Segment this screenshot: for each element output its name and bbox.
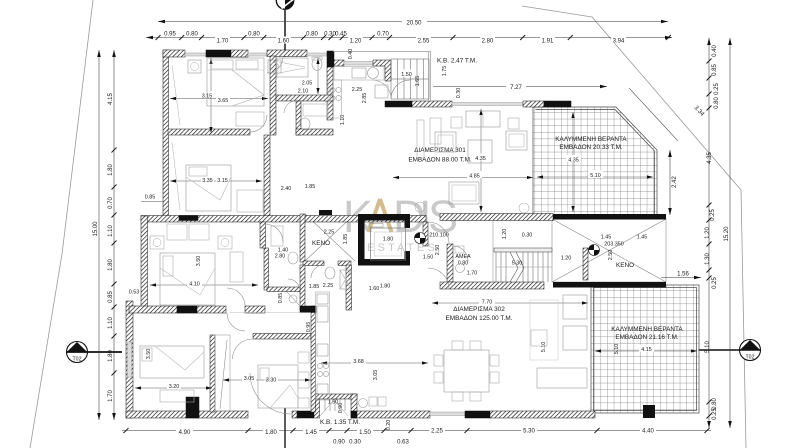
svg-text:0.53: 0.53 [129,290,140,296]
labels bottom chain [176,426,656,446]
dim 1.56 [661,272,701,281]
svg-text:0.40: 0.40 [348,49,354,60]
wall bath2 right [346,265,352,310]
door wc1 [284,101,296,113]
kb135 black foot [351,411,357,418]
arrows top chains [146,20,672,40]
kb boundary thin [333,52,431,102]
svg-text:Κ.Β. 1.35 Τ.Μ.: Κ.Β. 1.35 Τ.Μ. [320,419,360,426]
svg-text:ΔΙΑΜΕΡΙΣΜΑ 302: ΔΙΑΜΕΡΙΣΜΑ 302 [453,306,505,313]
labels right inner chain [705,45,730,420]
elevator shaft walls [358,214,410,221]
dim line 3.65 [170,98,268,100]
svg-text:1.50: 1.50 [401,72,412,78]
door bed302-1 top [265,224,283,242]
svg-text:5.10: 5.10 [614,344,620,355]
door bedroom1 [250,115,267,132]
wall wc1 bottom [296,129,333,135]
elevator car [371,228,406,260]
svg-text:0.85: 0.85 [278,293,284,304]
svg-text:4.35: 4.35 [475,156,486,162]
door bed302-2 [227,313,245,331]
kitchen counter left [328,80,342,118]
svg-text:3.65: 3.65 [218,98,229,104]
svg-text:ΕΜΒΑΔΟΝ 21.16 Τ.Μ.: ΕΜΒΑΔΟΝ 21.16 Τ.Μ. [615,334,679,341]
dining 302 [444,350,489,392]
fridge [375,85,388,98]
kb135 wall left [314,394,320,418]
dim line 2.05/2.10 vertical [317,58,319,94]
svg-text:4.15: 4.15 [641,347,652,353]
svg-text:2.55: 2.55 [418,39,430,45]
svg-text:0.30: 0.30 [522,233,533,239]
sofas 302 [563,295,587,319]
svg-text:1.80: 1.80 [383,237,394,243]
door amea [453,246,468,261]
svg-text:0.80: 0.80 [306,32,318,38]
svg-text:0.95: 0.95 [164,32,176,38]
stair lower landing [494,248,552,252]
svg-text:ΑΜΕΑ: ΑΜΕΑ [455,254,471,260]
svg-text:1.60: 1.60 [278,39,290,45]
svg-text:1.80: 1.80 [108,164,114,176]
svg-text:3.20: 3.20 [169,384,180,390]
svg-text:3.50: 3.50 [196,256,202,267]
wall separator main [141,216,426,223]
wall living top hatch [412,101,452,107]
site boundary right [522,6,746,448]
svg-text:3.15: 3.15 [217,178,228,184]
loveseat 301 bottom [449,182,479,204]
svg-text:1.10: 1.10 [108,225,114,237]
veranda 302 column [643,405,655,418]
svg-text:ΕΜΒΑΔΟΝ 20.33 Τ.Μ.: ΕΜΒΑΔΟΝ 20.33 Τ.Μ. [559,144,623,151]
door entry 301 [428,222,449,243]
wall bath2 top right [338,261,351,266]
svg-text:4.35: 4.35 [568,157,579,163]
svg-text:0.30: 0.30 [349,440,361,446]
wall bottom 302 [126,411,248,418]
wall kitchen left [327,67,333,120]
svg-text:3.68: 3.68 [353,359,364,365]
site boundary left [30,0,93,448]
svg-text:2.80: 2.80 [482,39,494,45]
dim line 3.20 [135,387,212,389]
svg-text:0.80: 0.80 [714,97,720,109]
svg-text:7.70: 7.70 [482,299,493,305]
wall living top black [385,101,412,107]
wall keno1 left [300,214,305,262]
dim 2.42 veranda right [668,150,678,215]
wall bed3 top [129,306,226,313]
svg-text:0.80: 0.80 [248,32,260,38]
wall bed2 right [260,222,266,248]
svg-text:3.94: 3.94 [613,39,625,45]
keno2 X cross [552,219,666,282]
wall bath1 left [270,56,276,135]
wall bed4 top [253,334,311,340]
door hall2 [288,279,300,291]
ticks right chain [707,59,712,64]
sofa set 301 [466,111,500,127]
window top 3 [307,53,327,56]
stair dims [399,70,414,77]
wall bottom hatch long [490,411,595,418]
dim line 4.10 [150,284,258,286]
svg-text:2.50: 2.50 [435,245,441,256]
svg-text:2.80: 2.80 [275,254,286,260]
svg-text:1.91: 1.91 [542,39,554,45]
kitchen counter top [334,67,384,81]
svg-text:2.40: 2.40 [281,186,292,192]
svg-text:1.20: 1.20 [502,229,508,240]
wall bedroom1 bottom [168,129,250,135]
column bottom black [186,397,199,418]
coffee table 301 [468,140,492,163]
wall core top [440,214,553,221]
wall hall 301 left [264,135,270,216]
svg-text:1.10: 1.10 [108,317,114,329]
svg-text:1.65: 1.65 [415,76,421,87]
svg-text:2.25: 2.25 [431,428,443,434]
dim line bottom [122,430,711,432]
amea fixtures [456,264,465,273]
svg-text:0.25: 0.25 [710,209,716,221]
svg-text:4.15: 4.15 [108,93,114,105]
svg-text:1.20: 1.20 [705,227,711,239]
dim line top segments [146,37,672,39]
shower mid circle [289,295,297,303]
svg-text:1.80: 1.80 [108,350,114,362]
north arrow [276,0,294,57]
level marker 1 [415,233,426,244]
svg-text:1.45: 1.45 [601,235,612,241]
dim line right inner [708,38,710,428]
arrows right chains [707,38,732,428]
wall step left [141,216,148,307]
svg-text:0.70: 0.70 [377,32,389,38]
svg-text:1.80: 1.80 [380,284,391,290]
svg-text:0.80: 0.80 [712,398,718,410]
window top 1 [185,53,206,56]
black segment corridor wall [300,306,316,313]
svg-text:0.85: 0.85 [108,291,114,303]
svg-text:1.75: 1.75 [442,66,448,77]
plants living 301 [415,202,529,213]
svg-text:2.05: 2.05 [302,81,313,87]
stair break diagonals [510,252,524,282]
nightstand lamps [153,63,279,247]
wardrobe row bedroom 302-1 [167,224,209,240]
wall kitchen 302 [311,306,316,412]
dresser 1 [236,112,264,126]
labels left inner chain (rotated) [93,93,114,402]
svg-text:0.85: 0.85 [145,195,156,201]
keno2 inner wall piece [583,248,588,280]
wall bottom black 3 [465,411,490,418]
door bed302-3 [233,339,253,359]
column black kitchen [327,51,334,67]
stair upper treads [391,59,429,99]
svg-text:0.25: 0.25 [712,277,718,289]
veranda 301 texts [555,136,627,151]
closet strip [215,335,230,411]
svg-text:4.85: 4.85 [469,173,480,179]
svg-text:2.42: 2.42 [672,176,678,188]
door entry 302 [428,268,449,289]
bed 302-2 [140,346,204,378]
svg-text:1.20: 1.20 [561,256,572,262]
dim line 4.85 living [393,177,533,179]
window kitchen [344,62,373,66]
svg-text:4.35: 4.35 [707,152,713,164]
keno1 X cross [305,214,355,261]
section line bottom [284,408,286,448]
bath2 toilet [288,252,298,264]
svg-text:15.20: 15.20 [724,226,730,242]
dim line 3.15 vertical [210,58,212,133]
level marker 2 [589,245,600,256]
bed 1 [207,58,264,106]
svg-text:0.20: 0.20 [386,420,392,431]
svg-text:0.40: 0.40 [712,45,718,57]
wall separator black segment [179,216,198,221]
veranda 302 texts [611,326,683,341]
wall bottom black 2 [297,411,314,418]
dim line 20.50 [158,21,668,23]
wall bath2 left [300,265,305,310]
svg-text:1.20: 1.20 [350,39,362,45]
wc 1 [312,58,322,71]
bed 2 [186,165,231,211]
svg-text:T02: T02 [746,355,755,361]
svg-text:5.30: 5.30 [512,261,523,267]
svg-text:210.100: 210.100 [429,233,449,239]
laundry machines [359,399,368,408]
dim line 7.70 [432,302,588,304]
svg-text:1.50: 1.50 [359,430,371,436]
wall bath2 top left [303,261,324,266]
door bath1 [267,57,283,73]
dim line 3.05/3.30 [223,379,311,381]
wall hall2 bottom [267,287,300,292]
svg-text:3.05: 3.05 [244,376,255,382]
door kitchen stair [372,80,391,99]
svg-text:1.50: 1.50 [423,255,434,261]
svg-text:2.25: 2.25 [352,87,363,93]
svg-text:0.90: 0.90 [333,440,345,446]
wall living top black 2 [544,101,571,107]
wall top corner 301 [163,50,185,57]
dresser 302-2 [160,390,194,402]
svg-text:1.85: 1.85 [309,284,320,290]
svg-text:0.45: 0.45 [335,32,347,38]
wall left 302 [126,301,133,418]
ticks left chain [112,148,117,153]
svg-text:5.10: 5.10 [541,342,547,353]
dim line veranda1 4.35/5.10 [537,176,653,178]
veranda 301 grid [533,107,657,215]
black piece separator near keno1 [319,210,332,215]
wall bed3 top right piece [245,306,265,313]
window top 2 [248,53,267,56]
corridor lines [230,312,311,314]
wall bottom middle piece [292,411,298,418]
nightstands 302-1 [150,236,164,249]
bed 302-3 [258,365,298,408]
wall top black lintel [206,50,231,57]
svg-text:ΚΑΛΥΜΜΕΝΗ ΒΕΡΑΝΤΑ: ΚΑΛΥΜΜΕΝΗ ΒΕΡΑΝΤΑ [611,326,683,333]
keno1 text [312,240,330,247]
kitchen 302 counter [316,292,330,400]
tv bench 301 [417,120,424,158]
kb135 wall top [314,394,357,399]
door bed302-1 [227,288,245,306]
svg-text:1.80: 1.80 [108,259,114,271]
wall bed3 top black [177,306,197,313]
window living top [452,103,523,106]
dim line 3.35/3.15 [170,180,262,182]
T02 marker right [698,340,761,361]
svg-text:1.10: 1.10 [340,115,346,126]
svg-text:1.70: 1.70 [467,271,478,277]
svg-text:0.30: 0.30 [456,88,462,99]
stair lobby divider [492,221,494,282]
svg-text:0.95: 0.95 [306,322,312,333]
svg-text:1.45: 1.45 [637,235,648,241]
door main entrance [250,373,291,414]
dim line left inner [113,50,115,420]
dim line 4.35 living vertical [480,109,482,212]
svg-text:20.50: 20.50 [406,20,422,26]
dim line 3.68 [321,362,428,364]
wall top hatch 3 [267,50,307,57]
door bath2 [311,265,324,278]
dresser 302-1 [230,252,243,282]
wardrobe 2 [237,190,263,212]
svg-text:0.80: 0.80 [186,32,198,38]
keno2 top wall [553,214,666,220]
svg-text:2.10: 2.10 [298,89,309,95]
dim line left outer [98,50,100,420]
stair lower treads [496,252,552,282]
wall closet [210,335,215,412]
bath2 basin [271,226,283,246]
svg-text:1.70: 1.70 [217,39,229,45]
dim line right outer [729,38,731,428]
corridor wall below separator [423,222,428,246]
window left 302 [128,342,132,377]
svg-text:3.05: 3.05 [373,370,379,381]
arrows left chains [97,50,116,420]
bed 302-1 [160,253,215,305]
labels 20.50 [402,18,427,26]
svg-text:ΕΜΒΑΔΟΝ 125.00 Τ.Μ.: ΕΜΒΑΔΟΝ 125.00 Τ.Μ. [446,315,513,322]
svg-text:2.25: 2.25 [323,283,334,289]
kb135 wall right [351,394,357,418]
svg-text:2.25: 2.25 [324,230,335,236]
svg-text:4.40: 4.40 [642,428,654,434]
dim 7.27 [431,83,608,91]
svg-text:1.56: 1.56 [677,272,689,278]
svg-text:3.35: 3.35 [202,178,213,184]
wall top hatch 2 [231,50,248,57]
kb135 stair treads [320,399,348,416]
ticks bottom chain [124,428,129,433]
wall wc1 [296,101,301,135]
svg-text:5.10: 5.10 [590,173,601,179]
svg-text:1.50: 1.50 [328,400,339,406]
amea wall left [447,244,453,282]
svg-text:ΕΜΒΑΔΟΝ 88.00 Τ.Μ.: ΕΜΒΑΔΟΝ 88.00 Τ.Μ. [408,157,472,164]
T02 marker left [67,342,123,363]
svg-text:2.50: 2.50 [608,250,614,261]
svg-text:15.00: 15.00 [93,221,99,237]
svg-text:0.25: 0.25 [712,408,718,420]
labels top segment chain [164,32,626,45]
svg-text:0.25: 0.25 [714,83,720,95]
wall kitchen top hatch [334,60,344,66]
veranda 302 grid [591,285,699,413]
svg-text:0.70: 0.70 [108,197,114,209]
rug 302 [530,300,558,360]
svg-text:T02: T02 [73,357,82,363]
wall living top hatch 2 [523,101,544,107]
svg-text:203.350: 203.350 [604,242,624,248]
shower 1 [277,58,308,77]
stair entry arc [391,80,410,99]
svg-text:1.85: 1.85 [305,184,316,190]
bath3 shower [340,270,351,289]
svg-text:5.30: 5.30 [523,428,535,434]
svg-text:1.80: 1.80 [265,430,277,436]
svg-text:1.70: 1.70 [108,390,114,402]
core bottom wall [440,282,544,289]
nightstand 1 [188,60,201,73]
wall bottom laundry [357,411,430,418]
svg-text:ΔΙΑΜΕΡΙΣΜΑ 301: ΔΙΑΜΕΡΙΣΜΑ 301 [414,147,466,154]
svg-text:3.50: 3.50 [146,349,152,360]
svg-text:5.10: 5.10 [705,341,711,353]
svg-text:2.85: 2.85 [362,93,368,104]
svg-text:4.90: 4.90 [179,430,191,436]
svg-text:1.30: 1.30 [705,253,711,265]
svg-text:1.60: 1.60 [369,286,380,292]
svg-text:ΚΕΝΟ: ΚΕΝΟ [312,240,330,247]
svg-text:0.85: 0.85 [712,64,718,76]
svg-text:7.27: 7.27 [510,85,522,91]
ticks top chain [156,35,161,40]
window bottom 302 [430,412,465,416]
bath3 toilet [325,267,335,279]
svg-text:1.45: 1.45 [305,430,317,436]
wall bath1 bottom [276,95,333,101]
svg-text:1.85: 1.85 [343,234,349,245]
keno2 bottom wall [553,282,666,288]
dim line veranda2 4.15 [595,350,697,352]
dim line veranda1 vertical [572,112,574,212]
svg-text:Κ.Β. 2.47 Τ.Μ.: Κ.Β. 2.47 Τ.Μ. [437,58,477,65]
side table 302-3 [298,352,309,363]
wall hall2 left [264,248,269,290]
left wall closet lines [172,65,180,125]
wall kitchen corner L [373,60,391,81]
svg-text:ΚΑΛΥΜΜΕΝΗ ΒΕΡΑΝΤΑ: ΚΑΛΥΜΜΕΝΗ ΒΕΡΑΝΤΑ [555,136,627,143]
watermark KADIS [343,191,458,254]
keno2 text [616,262,634,269]
svg-text:4.10: 4.10 [189,281,200,287]
dim 3.34 diagonal [629,88,705,141]
